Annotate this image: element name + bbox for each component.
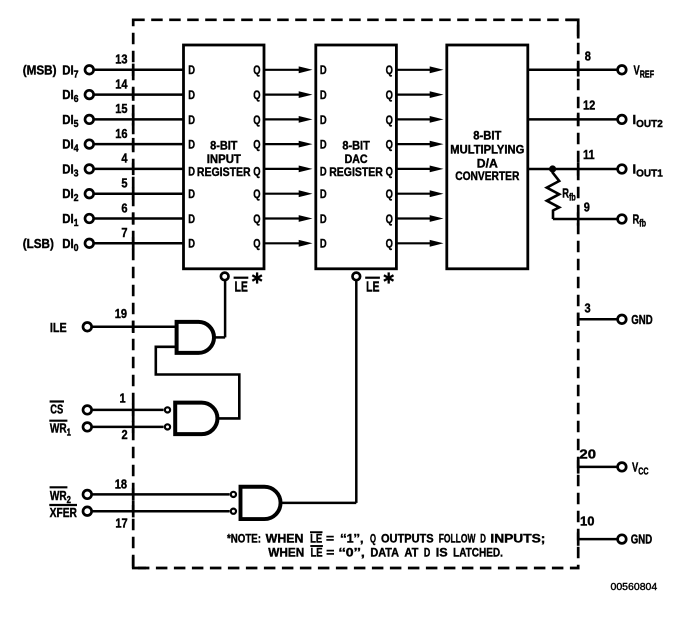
svg-text:Q: Q (253, 165, 260, 178)
svg-text:8-BIT: 8-BIT (473, 129, 502, 143)
svg-text:ILE: ILE (50, 320, 67, 335)
svg-text:D: D (480, 532, 486, 546)
svg-text:19: 19 (115, 306, 128, 321)
svg-text:Q: Q (386, 238, 393, 251)
svg-text:D: D (188, 89, 195, 102)
svg-text:7: 7 (121, 225, 127, 240)
svg-text:*NOTE:: *NOTE: (227, 532, 261, 546)
svg-text:GND: GND (631, 314, 652, 328)
svg-text:Q: Q (386, 188, 393, 201)
svg-text:11: 11 (583, 147, 595, 162)
svg-text:9: 9 (584, 200, 590, 215)
svg-text:Q: Q (370, 532, 376, 546)
svg-text:00560804: 00560804 (611, 581, 658, 593)
svg-text:GND: GND (631, 533, 652, 547)
svg-text:=: = (326, 532, 334, 546)
svg-text:LE: LE (235, 277, 249, 294)
svg-text:18: 18 (115, 476, 128, 491)
svg-text:D: D (320, 89, 327, 102)
svg-text:D: D (320, 138, 327, 151)
svg-text:5: 5 (121, 176, 127, 191)
svg-text:LE: LE (311, 546, 323, 560)
svg-text:D: D (188, 165, 195, 178)
svg-text:Q: Q (386, 64, 393, 77)
svg-text:D: D (320, 64, 327, 77)
svg-text:Q: Q (253, 188, 260, 201)
svg-text:D: D (188, 138, 195, 151)
svg-text:15: 15 (115, 101, 128, 116)
svg-text:2: 2 (122, 427, 128, 442)
svg-text:12: 12 (583, 98, 596, 113)
svg-text:WHEN: WHEN (266, 532, 304, 546)
svg-text:REGISTER: REGISTER (197, 165, 251, 179)
svg-text:Q: Q (386, 89, 393, 102)
svg-text:IS: IS (436, 546, 448, 560)
svg-text:13: 13 (115, 52, 128, 67)
svg-text:Q: Q (253, 89, 260, 102)
svg-text:Q: Q (386, 213, 393, 226)
svg-text:D: D (320, 238, 327, 251)
svg-text:INPUTS;: INPUTS; (490, 532, 545, 546)
svg-text:D: D (188, 213, 195, 226)
svg-text:D: D (320, 165, 327, 178)
svg-text:MULTIPLYING: MULTIPLYING (450, 143, 524, 157)
svg-text:=: = (326, 546, 334, 560)
svg-text:DAC: DAC (345, 152, 368, 166)
svg-text:8-BIT: 8-BIT (210, 139, 238, 153)
svg-text:DATA: DATA (370, 546, 399, 560)
svg-text:Q: Q (386, 165, 393, 178)
svg-text:D: D (424, 546, 431, 560)
svg-text:3: 3 (585, 300, 591, 315)
svg-text:LE: LE (310, 532, 322, 546)
svg-text:‘‘1’’,: ‘‘1’’, (340, 532, 363, 546)
svg-text:D: D (188, 64, 195, 77)
svg-text:Q: Q (253, 238, 260, 251)
svg-text:Q: Q (253, 138, 260, 151)
svg-text:4: 4 (121, 151, 127, 166)
svg-text:LE: LE (366, 277, 380, 294)
svg-text:D: D (320, 114, 327, 127)
svg-text:OUTPUTS: OUTPUTS (381, 532, 434, 546)
svg-text:14: 14 (115, 77, 128, 92)
svg-text:6: 6 (121, 200, 127, 215)
svg-text:D: D (188, 238, 195, 251)
svg-text:XFER: XFER (50, 506, 78, 520)
svg-text:Q: Q (253, 213, 260, 226)
svg-text:1: 1 (120, 391, 126, 406)
svg-text:AT: AT (404, 546, 419, 560)
svg-text:CONVERTER: CONVERTER (455, 169, 519, 183)
svg-text:D: D (188, 188, 195, 201)
svg-text:FOLLOW: FOLLOW (439, 532, 476, 546)
svg-text:8: 8 (585, 48, 591, 63)
svg-text:Q: Q (253, 114, 260, 127)
svg-text:LATCHED.: LATCHED. (453, 546, 503, 560)
svg-text:Q: Q (386, 138, 393, 151)
svg-text:CS: CS (50, 403, 63, 417)
svg-text:D: D (188, 114, 195, 127)
svg-text:‘‘0’’,: ‘‘0’’, (339, 546, 365, 560)
svg-text:Q: Q (386, 114, 393, 127)
svg-text:D: D (320, 213, 327, 226)
svg-text:10: 10 (580, 514, 594, 529)
svg-text:8-BIT: 8-BIT (342, 139, 370, 153)
svg-text:WHEN: WHEN (268, 546, 304, 560)
svg-text:INPUT: INPUT (207, 152, 242, 166)
svg-text:REGISTER: REGISTER (329, 165, 383, 179)
svg-text:Q: Q (253, 64, 260, 77)
svg-text:(MSB): (MSB) (23, 63, 57, 78)
svg-text:20: 20 (579, 447, 596, 462)
svg-text:(LSB): (LSB) (23, 236, 54, 251)
svg-text:16: 16 (115, 126, 128, 141)
svg-text:17: 17 (115, 515, 128, 530)
svg-text:D: D (320, 188, 327, 201)
